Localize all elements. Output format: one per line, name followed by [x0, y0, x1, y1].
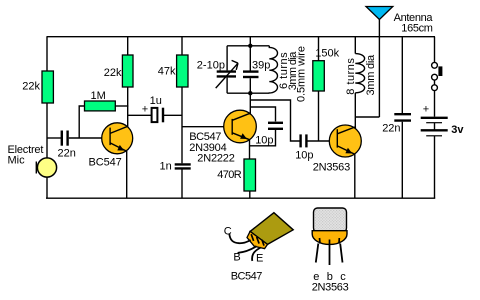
wire 1M left leg: [79, 106, 84, 138]
wire 470R to ground: [249, 191, 251, 198]
label 150k: [315, 48, 339, 60]
label 22n: [58, 148, 76, 160]
wire antenna tap: [355, 116, 379, 118]
label Electret Mic: [8, 144, 44, 167]
wire 39p top lead: [249, 46, 251, 71]
wire rail to switch: [434, 37, 436, 63]
wire 1u to 47k branch: [164, 114, 182, 116]
capacitor 10p coupling: [301, 134, 307, 147]
label 2-10p: [197, 59, 225, 71]
wire Q2 base: [182, 126, 225, 128]
svg-text:47k: 47k: [158, 66, 176, 78]
svg-text:BC547: BC547: [231, 270, 263, 282]
wire rail to 150k: [318, 37, 320, 61]
label 165cm: [401, 23, 432, 35]
svg-text:BC547: BC547: [89, 157, 122, 169]
svg-text:E: E: [256, 253, 263, 265]
label 2N3563 package: [312, 282, 349, 294]
wire antenna feed: [378, 18, 380, 118]
wire Q3 emitter to ground: [354, 154, 356, 198]
junction dot tank bottom: [248, 91, 252, 95]
wire rail to L2: [354, 37, 356, 54]
capacitor 22n input coupling: [62, 131, 68, 146]
label 39p: [252, 59, 270, 71]
electret microphone: [36, 158, 56, 177]
svg-text:+: +: [423, 104, 429, 116]
label BC547 package: [231, 270, 263, 282]
svg-text:C: C: [224, 225, 232, 237]
wire Q2 emitter: [249, 140, 251, 159]
wire 39p bottom lead: [249, 78, 251, 93]
capacitor 1u electrolytic: [152, 108, 163, 123]
wire 150k to Q3 base: [318, 91, 320, 141]
wire 47k branch down to 1n: [181, 87, 183, 163]
battery 3v: [421, 118, 448, 136]
resistor 150k: [313, 61, 325, 91]
svg-text:1u: 1u: [150, 95, 162, 107]
svg-text:22k: 22k: [104, 67, 122, 79]
label 22n: [382, 123, 400, 135]
label 22k: [104, 67, 122, 79]
label E: [256, 253, 263, 265]
inductor L1 6 turns: [269, 46, 277, 93]
svg-text:Mic: Mic: [8, 155, 26, 167]
resistor 1M feedback: [85, 101, 116, 111]
BC547 package drawing: [229, 213, 293, 261]
label 1u: [150, 95, 162, 107]
svg-text:+: +: [142, 103, 148, 115]
label 2N3563: [313, 161, 350, 173]
resistor 47k: [177, 55, 188, 87]
wire mic to ground rail: [46, 177, 48, 198]
label 10p: [255, 135, 273, 147]
label 1n: [160, 160, 172, 172]
wire top supply rail: [47, 36, 436, 38]
capacitor 22n supply: [394, 114, 411, 120]
transistor Q1 BC547: [102, 123, 133, 154]
svg-text:3mm dia: 3mm dia: [365, 54, 377, 96]
label 3mm dia: [365, 54, 377, 96]
wire 22k to mic: [46, 103, 48, 158]
label 22k: [22, 80, 40, 92]
capacitor 10p feedback: [268, 123, 283, 129]
svg-text:2N2222: 2N2222: [197, 152, 234, 164]
wire 1M to collector node: [115, 105, 128, 107]
wire tank bottom: [227, 92, 269, 94]
wire mic tap to 22n: [47, 137, 61, 139]
wire bottom ground rail: [46, 197, 435, 199]
label e: [313, 271, 319, 283]
label 10p: [295, 149, 313, 161]
svg-text:3v: 3v: [451, 124, 464, 136]
2N3563 package drawing: [312, 208, 347, 265]
junction dot tank top: [248, 44, 252, 48]
label BC547 2N3904 2N2222: [189, 131, 235, 165]
svg-text:470R: 470R: [217, 169, 242, 181]
label plus polarity battery: [423, 104, 429, 116]
label 8 turns: [345, 58, 357, 95]
label c: [340, 271, 346, 283]
label C: [224, 225, 232, 237]
wire rail to 22k stage1: [127, 37, 129, 56]
wire switch to battery: [434, 91, 436, 117]
label 3mm dia: [287, 51, 299, 90]
wire 1n to ground: [181, 169, 183, 198]
label b: [327, 271, 333, 283]
wire feedback 10p top: [250, 107, 275, 121]
svg-text:0.5mm wire: 0.5mm wire: [296, 46, 308, 102]
wire trimmer bottom lead: [226, 78, 228, 94]
wire 22n to ground: [401, 122, 403, 198]
svg-text:B: B: [233, 252, 240, 264]
label 470R: [217, 169, 242, 181]
trimmer capacitor 2-10p: [216, 60, 238, 88]
label Antenna: [394, 12, 434, 24]
svg-text:22n: 22n: [58, 148, 76, 160]
transistor Q3 2N3563: [329, 125, 361, 157]
wire 10p to Q3 base: [307, 140, 329, 142]
svg-text:8 turns: 8 turns: [345, 58, 357, 95]
wire left branch from rail to 22k: [46, 37, 48, 72]
capacitor 1n: [175, 164, 191, 168]
label 0.5mm wire: [296, 46, 308, 102]
wire 22n to Q1 base: [69, 137, 103, 139]
wire battery to ground: [434, 136, 436, 199]
svg-text:165cm: 165cm: [401, 23, 432, 35]
svg-text:10p: 10p: [295, 149, 313, 161]
label 6 turns: [278, 52, 290, 89]
resistor 22k mic bias: [42, 71, 53, 103]
wire collector node to 1u: [128, 114, 152, 116]
svg-text:10p: 10p: [255, 135, 273, 147]
wire L2 to Q3 collector: [354, 93, 356, 129]
wire coupling 10p left: [250, 100, 299, 141]
wire trimmer top lead: [226, 46, 228, 71]
switch push button: [432, 62, 443, 90]
wire rail to 22n supply: [401, 37, 403, 114]
resistor 22k stage1 collector load: [122, 55, 133, 87]
wire 22k to Q1 collector: [127, 87, 129, 127]
label plus polarity 1u: [142, 103, 148, 115]
label 47k: [158, 66, 176, 78]
wire Q1 emitter to ground: [126, 151, 128, 198]
wire Q2 collector to tank: [249, 93, 251, 114]
wire rail to 47k: [181, 37, 183, 56]
label BC547: [89, 157, 122, 169]
wire tank top: [227, 45, 269, 47]
label B: [233, 252, 240, 264]
svg-text:150k: 150k: [315, 48, 339, 60]
transistor Q2 BC547: [224, 110, 257, 143]
wire rail to tank: [249, 37, 251, 46]
wire feedback 10p bottom: [250, 130, 276, 146]
antenna: [366, 7, 393, 20]
svg-text:2N3563: 2N3563: [313, 161, 350, 173]
svg-text:39p: 39p: [252, 59, 270, 71]
label 3v: [451, 124, 464, 136]
svg-text:22n: 22n: [382, 123, 400, 135]
svg-text:1n: 1n: [160, 160, 172, 172]
label 1M: [91, 90, 106, 102]
svg-text:22k: 22k: [22, 80, 40, 92]
inductor L2 8 turns: [355, 54, 364, 93]
svg-text:2N3563: 2N3563: [312, 282, 349, 294]
resistor 470R emitter: [244, 159, 256, 191]
svg-text:2-10p: 2-10p: [197, 59, 225, 71]
capacitor 39p: [243, 72, 259, 77]
svg-text:1M: 1M: [91, 90, 106, 102]
